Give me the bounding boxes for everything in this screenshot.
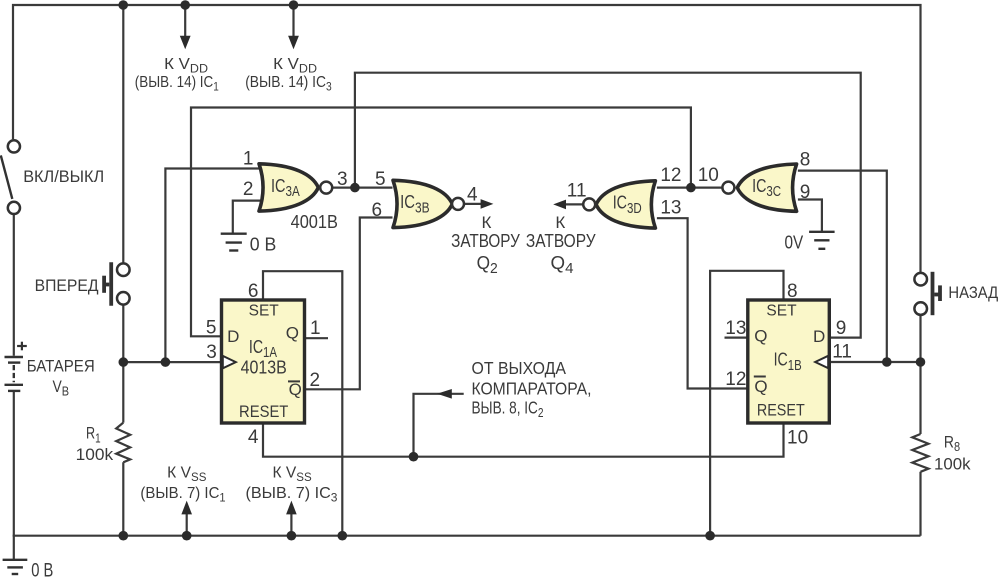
svg-text:(ВЫВ. 7) IC1: (ВЫВ. 7) IC1	[140, 485, 225, 505]
svg-text:4: 4	[467, 185, 478, 206]
svg-text:(ВЫВ. 7) IC3: (ВЫВ. 7) IC3	[246, 485, 338, 505]
svg-text:8: 8	[800, 150, 811, 171]
svg-text:К: К	[481, 213, 491, 232]
svg-text:SET: SET	[766, 303, 797, 320]
svg-text:3: 3	[206, 342, 217, 363]
svg-text:8: 8	[787, 281, 798, 302]
svg-text:(ВЫВ. 14) IC3: (ВЫВ. 14) IC3	[245, 74, 332, 94]
svg-text:Q: Q	[754, 377, 767, 396]
svg-text:ОТ ВЫХОДА: ОТ ВЫХОДА	[472, 358, 567, 378]
svg-text:Q4: Q4	[551, 253, 574, 277]
svg-text:0 В: 0 В	[31, 560, 53, 579]
svg-text:6: 6	[372, 200, 383, 221]
svg-text:(ВЫВ. 14) IC1: (ВЫВ. 14) IC1	[135, 74, 219, 94]
svg-text:5: 5	[375, 169, 386, 190]
svg-text:6: 6	[248, 281, 259, 302]
svg-text:4013B: 4013B	[241, 356, 287, 377]
svg-text:1: 1	[310, 318, 321, 339]
svg-text:К: К	[555, 213, 565, 232]
svg-text:D: D	[227, 327, 239, 346]
svg-text:4: 4	[248, 427, 259, 448]
svg-text:13: 13	[660, 198, 681, 219]
svg-text:10: 10	[787, 428, 808, 449]
svg-text:Q: Q	[754, 327, 767, 346]
svg-text:R8: R8	[944, 433, 960, 454]
svg-text:12: 12	[725, 369, 746, 390]
svg-text:ВКЛ/ВЫКЛ: ВКЛ/ВЫКЛ	[23, 168, 104, 186]
svg-text:ВЫВ. 8, IC2: ВЫВ. 8, IC2	[472, 398, 544, 421]
svg-text:RESET: RESET	[757, 401, 805, 420]
svg-text:RESET: RESET	[239, 402, 288, 421]
svg-text:12: 12	[660, 165, 681, 186]
svg-text:К VDD: К VDD	[273, 56, 317, 76]
svg-text:БАТАРЕЯ: БАТАРЕЯ	[27, 357, 95, 375]
svg-text:НАЗАД: НАЗАД	[948, 284, 998, 302]
svg-text:5: 5	[206, 318, 217, 339]
svg-text:9: 9	[836, 318, 847, 339]
svg-text:11: 11	[832, 342, 852, 363]
svg-text:SET: SET	[249, 303, 280, 320]
svg-text:ВПЕРЕД: ВПЕРЕД	[35, 277, 99, 295]
svg-text:2: 2	[243, 179, 254, 200]
svg-text:К VSS: К VSS	[273, 465, 313, 485]
svg-text:11: 11	[567, 181, 587, 202]
svg-text:R1: R1	[86, 425, 101, 446]
svg-text:К VSS: К VSS	[167, 465, 207, 485]
svg-text:10: 10	[698, 165, 719, 186]
svg-text:9: 9	[800, 182, 811, 203]
svg-text:13: 13	[725, 318, 746, 339]
svg-text:2: 2	[310, 370, 321, 391]
svg-text:100k: 100k	[76, 445, 114, 464]
svg-text:4001B: 4001B	[291, 212, 338, 232]
svg-text:ЗАТВОРУ: ЗАТВОРУ	[526, 230, 596, 251]
svg-text:ЗАТВОРУ: ЗАТВОРУ	[451, 230, 520, 251]
svg-text:3: 3	[337, 169, 348, 190]
svg-text:0V: 0V	[785, 233, 804, 253]
svg-text:Q: Q	[286, 324, 299, 343]
svg-text:VB: VB	[53, 378, 70, 399]
svg-text:D: D	[813, 327, 825, 346]
svg-text:1: 1	[243, 149, 254, 170]
svg-text:Q: Q	[289, 380, 302, 399]
svg-text:К VDD: К VDD	[164, 56, 208, 76]
svg-text:Q2: Q2	[477, 253, 498, 277]
svg-text:0 В: 0 В	[250, 234, 277, 254]
svg-text:КОМПАРАТОРА,: КОМПАРАТОРА,	[472, 378, 592, 398]
svg-text:100k: 100k	[934, 454, 971, 473]
